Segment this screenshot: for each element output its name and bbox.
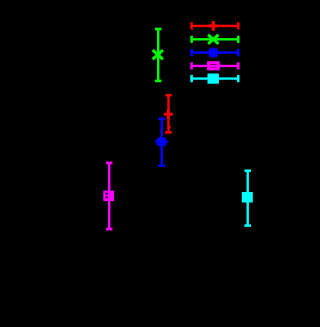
legend red left cap	[190, 22, 193, 29]
green top cap	[155, 28, 162, 31]
red top cap	[165, 94, 172, 97]
cyan bottom cap	[244, 224, 251, 227]
legend cyan right cap	[237, 75, 240, 82]
blue asterisk marker	[155, 137, 167, 147]
magenta open square marker	[103, 191, 114, 202]
red plus marker	[164, 109, 173, 119]
series 1 errorbar (green X)	[153, 29, 163, 81]
magenta bottom cap	[106, 228, 113, 231]
series 4 errorbar (magenta open square)	[103, 163, 114, 229]
wire legend cyan hline	[190, 77, 239, 79]
series 3 errorbar (blue asterisk)	[155, 119, 167, 166]
legend green right cap	[237, 36, 240, 43]
legend red plus marker	[209, 21, 218, 31]
legend blue left cap	[190, 49, 193, 56]
series 5 errorbar (cyan filled square)	[242, 171, 253, 226]
legend magenta left cap	[190, 62, 193, 69]
legend red right cap	[237, 22, 240, 29]
legend magenta open square marker	[209, 63, 219, 69]
blue top cap	[158, 118, 165, 121]
legend cyan left cap	[190, 75, 193, 82]
wire green vertical error line	[157, 29, 159, 81]
green X marker	[153, 50, 163, 59]
magenta marker hole bottom	[106, 196, 108, 198]
legend green X marker	[208, 35, 218, 44]
legend blue asterisk marker	[207, 48, 219, 58]
wire cyan vertical error line	[246, 171, 248, 226]
legend row 3 (blue asterisk sample)	[190, 48, 239, 58]
wire red vertical error line	[167, 95, 169, 132]
cyan filled square marker	[242, 192, 253, 203]
wire magenta vertical error line	[108, 163, 110, 229]
magenta top cap	[106, 162, 113, 165]
legend row 2 (green X sample)	[190, 35, 239, 44]
cyan top cap	[244, 169, 251, 172]
legend row 5 (cyan filled square sample)	[190, 74, 239, 84]
legend green left cap	[190, 36, 193, 43]
green bottom cap	[155, 80, 162, 83]
blue bottom cap	[158, 164, 165, 167]
wire legend magenta hline	[190, 65, 239, 67]
legend magenta right cap	[237, 62, 240, 69]
wire legend green hline	[190, 38, 239, 40]
wire legend red hline	[190, 25, 239, 27]
magenta marker hole top	[106, 193, 108, 195]
wire blue vertical error line	[160, 119, 162, 166]
legend row 1 (red plus sample)	[190, 21, 239, 31]
series 2 errorbar (red plus)	[164, 95, 173, 132]
legend row 4 (magenta open square sample)	[190, 62, 239, 69]
red bottom cap	[165, 131, 172, 134]
legend blue right cap	[237, 49, 240, 56]
legend cyan filled square marker	[208, 74, 219, 84]
wire legend blue hline	[190, 51, 239, 53]
red small nub	[169, 126, 170, 128]
